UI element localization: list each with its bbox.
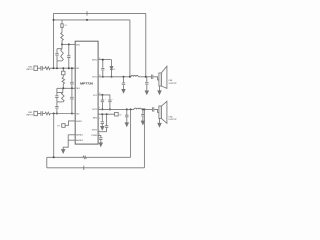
svg-text:REG: REG: [93, 118, 98, 120]
wire C17 to speaker step: [154, 109, 159, 112]
node dot CH1 input / rail1 riser: [53, 67, 55, 69]
wire BST2 pin: [98, 131, 107, 133]
capacitor C12 CH1 zobel to ground: [145, 77, 148, 91]
ground symbol C15: [125, 123, 128, 126]
svg-text:OUT1: OUT1: [92, 77, 98, 79]
capacitor C8 RC2 to CH2 input: [55, 102, 58, 114]
node dot bootstrap cap bottom: [102, 76, 104, 78]
speaker SP2 box: [159, 106, 161, 118]
wire bus stubs down to RC2: [57, 88, 63, 92]
node dot wire A riser CH2 input: [53, 156, 55, 158]
capacitor C16 CH2 zobel to ground: [141, 109, 144, 121]
wire rail1 left riser down to CH1 input node: [53, 13, 55, 68]
wire rail1 right riser down to CH1 output line: [145, 13, 147, 76]
svg-text:CH1: CH1: [168, 80, 173, 82]
node dot VCC cap tap: [101, 94, 103, 96]
tick mark crossing wire B: [83, 166, 85, 170]
svg-text:OUT2: OUT2: [92, 109, 98, 111]
wire PGND pin to cap: [98, 135, 101, 137]
svg-text:8: 8: [99, 118, 100, 120]
wire CH1 output line after inductor: [138, 76, 151, 78]
node dot rail2 start on riser: [53, 19, 55, 21]
wire RC1 bottom join: [57, 60, 62, 62]
wire top rail 2 (inner loop CH1): [54, 19, 130, 21]
capacitor C3 NF1 (electrolytic): [61, 24, 63, 28]
capacitor C13 VCC decoupling: [101, 95, 104, 110]
resistor R6 RC2 right branch: [62, 93, 65, 102]
capacitor C19 REG to BST2 wire: [105, 114, 108, 132]
svg-text:ST: ST: [57, 126, 60, 128]
node dot CH2 line riser B: [143, 108, 145, 110]
svg-text:CH2: CH2: [168, 116, 173, 118]
node dot CH2 input / bottom riser: [53, 113, 55, 115]
capacitor C20 PGND: [99, 138, 102, 143]
resistor R1 input series: [45, 67, 50, 70]
resistor R5 vertical: [62, 77, 65, 83]
node dot C13 at CH2 line: [101, 108, 103, 110]
wire R5 to bus: [62, 84, 64, 89]
node dot CH1 line rail2 riser: [129, 76, 131, 78]
node dot CH2 line riser A: [130, 108, 132, 110]
wire top rail 1 (outer feedback loop CH1): [54, 12, 146, 14]
wire rail2 right riser down to CH1 output line: [129, 20, 131, 77]
svg-text:INPUT: INPUT: [27, 69, 34, 71]
wire CH2 feedback riser down to bottom wire A: [53, 114, 55, 158]
node dot bus x71.9: [71, 87, 73, 89]
capacitor C17 CH2 output coupling: [152, 107, 153, 111]
wire CH1 output line IC to inductor: [98, 76, 131, 78]
wire SP1 to ground: [159, 86, 161, 91]
diode D1 bootstrap CH1: [111, 60, 113, 67]
ground symbol SP1: [158, 91, 161, 94]
capacitor C15 CH2 filter to ground: [125, 109, 128, 122]
ground symbol C16: [141, 121, 144, 124]
wire CH2 output line after inductor: [142, 108, 153, 110]
svg-text:BST1: BST1: [92, 59, 98, 61]
wire BST1 pin to bootstrap top: [98, 59, 111, 61]
wire CH2 output line IC to inductor: [98, 108, 134, 110]
node dot REG wire cap2: [106, 113, 108, 115]
wire C11 to speaker step: [153, 77, 159, 80]
ground symbol CH1 filter: [122, 89, 125, 92]
node dot bootstrap diode bottom: [111, 76, 113, 78]
connector J2 CH2 input: [34, 111, 38, 115]
svg-text:PGND: PGND: [91, 135, 97, 137]
capacitor C6 below input line at x71.9: [70, 68, 73, 88]
connector J4 mute: [62, 124, 65, 128]
wire RC2 bottom join: [57, 101, 63, 103]
capacitor C21 bus to CH2 input line: [70, 88, 73, 113]
connector J1 CH1 input: [34, 66, 38, 70]
capacitor C2 input coupling: [41, 111, 42, 116]
ground symbol SP2: [158, 123, 161, 126]
node dot CH1 line filter cap: [123, 76, 125, 78]
svg-text:INPUT: INPUT: [27, 115, 34, 117]
wire bottom loop B: [47, 167, 145, 169]
node dot bootstrap cap top: [102, 59, 104, 61]
wire J4 to IC pin MUTE: [65, 121, 75, 126]
wire AGND riser: [63, 135, 68, 150]
wire AGND pin 1: [68, 134, 75, 136]
wire bias bus to IC pin: [57, 87, 75, 89]
resistor R4 RC1 right branch: [61, 49, 64, 61]
node dot rail2 at x87: [86, 19, 88, 21]
wire R3 to node BS1: [61, 41, 63, 45]
svg-text:D1: D1: [113, 69, 115, 71]
wire bottom loop A: [47, 156, 83, 158]
svg-text:MP7720: MP7720: [80, 82, 94, 86]
svg-text:BST2: BST2: [92, 129, 98, 131]
wire NF1 chain from rail2: [61, 20, 63, 24]
svg-text:+: +: [112, 99, 113, 101]
inductor L1 CH1: [131, 75, 138, 76]
resistor R2 input series: [45, 112, 50, 115]
node dot J3 chain at input line: [62, 67, 64, 69]
capacitor C18 REG to ground: [101, 114, 104, 126]
wire riser A up to CH2 output line: [130, 109, 132, 157]
inductor L2 CH2: [134, 108, 142, 109]
node dot C21 at CH2 input line: [71, 113, 73, 115]
node dot CH2 line cap C16: [142, 108, 144, 110]
ferrite bead FB1: [115, 112, 119, 116]
speaker SP1 box: [159, 73, 161, 86]
wire CH2 input line to IC pin IN2: [50, 113, 75, 115]
resistor R7 inline mark on wire A: [83, 156, 86, 158]
node dot bus x63.3: [62, 87, 64, 89]
svg-text:MUTE: MUTE: [76, 121, 82, 123]
speaker SP1 cone: [161, 66, 167, 88]
tick mark crossing rail1: [86, 11, 88, 15]
svg-text:OUTPUT: OUTPUT: [168, 83, 177, 85]
svg-text:5V: 5V: [119, 115, 122, 117]
wire J2 to C2: [37, 113, 40, 115]
svg-text:+: +: [105, 99, 106, 101]
wire C1 to R1: [43, 67, 45, 69]
svg-text:AGND1: AGND1: [76, 134, 84, 137]
wire bottom loop A right: [86, 156, 130, 158]
IC U1 body: [75, 41, 98, 144]
node dot C5 at input line: [68, 67, 70, 69]
wire AGND pin 2: [68, 139, 75, 141]
wire RC1 top join: [57, 44, 62, 48]
wire J3 to R5: [62, 75, 64, 78]
capacitor C11 CH1 output coupling: [151, 75, 152, 79]
node dot CH1 line rail1 riser: [145, 76, 147, 78]
capacitor C7 RC2 left branch: [55, 93, 58, 102]
node dot BS1 wire / cap leg: [68, 43, 70, 45]
capacitor C9 bootstrap CH1: [101, 60, 104, 77]
capacitor C10 CH1 filter to ground: [122, 77, 125, 90]
connector J3 below CH1 input line: [62, 68, 64, 71]
capacitor C14 VCC decoupling: [108, 100, 111, 109]
node dot CH2 line cap C15: [126, 108, 128, 110]
ground symbol AGND: [62, 150, 65, 153]
svg-text:VCC: VCC: [93, 95, 98, 97]
svg-text:12: 12: [99, 58, 101, 60]
wire node to IC pin BS1: [62, 43, 75, 45]
wire left joiner A-B: [46, 157, 48, 168]
wire RC2 top join: [57, 92, 63, 94]
wire C3 to R3: [61, 27, 63, 32]
capacitor C1 input coupling: [41, 66, 42, 71]
wire CH1 input line to IC pin IN1: [50, 67, 75, 69]
ground symbol C20: [99, 143, 102, 146]
wire J1 to C1: [37, 67, 40, 69]
wire REG pin to bead: [98, 113, 115, 115]
resistor R3 NF1: [61, 33, 64, 41]
wire VCC pin: [98, 95, 110, 100]
capacitor C5 from BS1 node down to input line: [67, 44, 70, 68]
capacitor C4 RC1 left branch: [55, 49, 58, 61]
svg-text:OUTPUT: OUTPUT: [168, 119, 177, 121]
ground symbol CH1 zobel: [145, 91, 148, 94]
wire C2 to R2: [43, 113, 45, 115]
wire RC1 down to input line: [56, 61, 58, 68]
node dot CH1 input / RC leg: [56, 67, 58, 69]
node dot C8 at CH2 input line: [56, 113, 58, 115]
wire riser B up to CH2 output line: [143, 109, 145, 167]
node dot REG wire cap1: [101, 113, 103, 115]
svg-text:C3: C3: [64, 25, 66, 27]
node dot C6 at input line: [71, 67, 73, 69]
ground symbol C18: [101, 126, 104, 129]
svg-text:AGND2: AGND2: [76, 139, 84, 142]
wire SP2 to ground: [159, 118, 161, 123]
node dot C14 at CH2 line: [109, 108, 111, 110]
node dot BS1 wire / RC top: [61, 43, 63, 45]
speaker SP2 cone: [161, 101, 167, 123]
